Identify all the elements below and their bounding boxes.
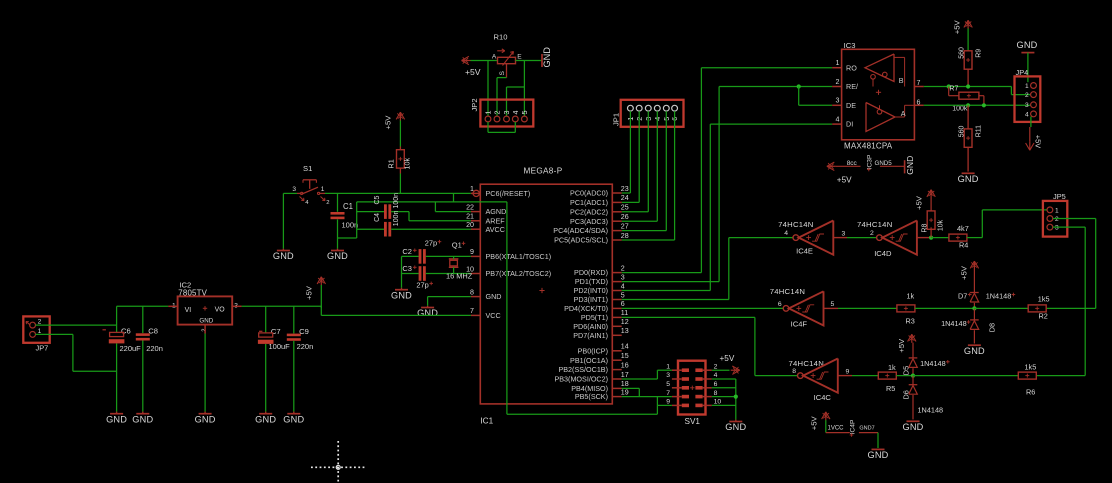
junction (RE/DE tie) — [797, 84, 801, 88]
svg-text:16 MHZ: 16 MHZ — [446, 271, 473, 280]
wire SV1 pin10 — [712, 404, 736, 406]
svg-text:1k: 1k — [888, 363, 896, 372]
wire SV1 pin8 — [712, 396, 736, 398]
gate IC4C 74HC14N — [789, 359, 853, 402]
svg-text:A: A — [901, 109, 906, 118]
svg-text:GND: GND — [905, 156, 915, 175]
wire S1 pin1 to IC1 pin1 (reset line) — [325, 192, 471, 194]
connector JP2 — [470, 98, 533, 126]
svg-text:74HC14N: 74HC14N — [857, 220, 893, 229]
svg-text:560: 560 — [958, 126, 965, 138]
svg-text:PD7(AIN1): PD7(AIN1) — [573, 331, 608, 340]
svg-text:PD1(TXD): PD1(TXD) — [575, 277, 608, 286]
svg-text:6: 6 — [917, 98, 921, 106]
wire IC4E out to IC4D in — [847, 237, 877, 239]
svg-text:100n: 100n — [393, 211, 400, 227]
ground (under IC1 GND pin) — [417, 306, 438, 318]
wire C3 row — [402, 273, 419, 275]
svg-text:5: 5 — [520, 111, 529, 115]
svg-text:JP7: JP7 — [36, 343, 49, 352]
wire IC2 VO to +5V rail — [242, 306, 322, 308]
junction (D7/D8 node) — [972, 306, 976, 310]
resistor R5 1k — [878, 363, 896, 393]
wire caps rail top — [357, 201, 454, 203]
svg-text:SV1: SV1 — [685, 417, 701, 426]
connector JP7 — [23, 316, 49, 352]
capacitor C4 — [357, 211, 400, 237]
svg-text:GND: GND — [327, 251, 348, 261]
svg-text:14: 14 — [621, 343, 629, 351]
svg-text:4: 4 — [714, 372, 718, 379]
wire SV1 pin9 feed — [657, 397, 672, 406]
svg-text:GND: GND — [417, 308, 438, 318]
wire JP5 pin3 to R6 — [1036, 227, 1085, 376]
svg-text:4k7: 4k7 — [957, 224, 969, 233]
wire GND to S1 pin3 — [283, 192, 297, 194]
svg-text:RE/: RE/ — [846, 82, 858, 91]
svg-text:+5V: +5V — [720, 354, 735, 363]
svg-text:IC3P: IC3P — [866, 154, 873, 169]
wire SV1 pin6 — [712, 387, 736, 389]
svg-text:8: 8 — [714, 390, 718, 397]
wire reset branch down — [454, 193, 507, 202]
svg-text:GND: GND — [283, 414, 304, 424]
svg-text:11: 11 — [621, 309, 628, 317]
wire C4 to AVCC — [391, 228, 471, 230]
svg-text:DI: DI — [846, 120, 853, 129]
svg-text:PC4(ADC4/SDA): PC4(ADC4/SDA) — [553, 226, 608, 235]
svg-text:PC6(/RESET): PC6(/RESET) — [486, 189, 531, 198]
svg-text:A: A — [492, 54, 497, 61]
svg-text:3: 3 — [292, 186, 296, 193]
svg-text:74HC14N: 74HC14N — [778, 220, 814, 229]
wire C2 row — [402, 255, 419, 257]
wire IC3 B line — [924, 86, 1012, 88]
svg-text:C6: C6 — [121, 326, 131, 335]
potentiometer R10 — [492, 33, 522, 78]
connector JP1 — [612, 100, 684, 127]
svg-text:22: 22 — [466, 203, 474, 211]
svg-text:1: 1 — [1025, 83, 1029, 90]
power +5V (R9) — [953, 20, 973, 35]
connector JP5 — [1043, 192, 1067, 236]
svg-text:1VCC: 1VCC — [828, 426, 845, 432]
wire PD1 to IC3 RE/DE — [622, 87, 833, 282]
svg-text:5: 5 — [831, 301, 835, 308]
wire +5V to R10 A — [471, 60, 498, 62]
svg-text:+5V: +5V — [953, 20, 962, 35]
wire R3 to diode node — [915, 307, 975, 309]
wire R5 to diode node — [896, 375, 913, 377]
wire reset trace through IC to SV1 (vertical) — [506, 202, 508, 414]
svg-text:GND: GND — [486, 292, 502, 301]
wire JP2 pin5 to pin3 — [507, 87, 525, 116]
svg-text:4: 4 — [836, 116, 840, 124]
svg-text:R11: R11 — [976, 125, 983, 137]
svg-text:IC4F: IC4F — [791, 319, 808, 328]
wire PD2 to IC3 DI — [622, 124, 833, 290]
svg-text:100k: 100k — [952, 105, 968, 112]
svg-text:1: 1 — [1055, 207, 1059, 214]
svg-text:1k5: 1k5 — [1038, 295, 1050, 304]
svg-text:1k5: 1k5 — [1025, 362, 1037, 371]
svg-text:IC1: IC1 — [480, 417, 493, 426]
svg-text:100n: 100n — [342, 221, 359, 230]
wire JP1 pin2 to IC1 pin 24 — [622, 111, 640, 202]
svg-text:3: 3 — [1025, 102, 1029, 109]
resistor R8 10k — [921, 198, 944, 238]
svg-text:PC0(ADC0): PC0(ADC0) — [570, 189, 608, 198]
wire node to R4 — [931, 237, 949, 239]
svg-text:PB6(XTAL1/TOSC1): PB6(XTAL1/TOSC1) — [486, 252, 552, 261]
svg-text:PD2(INT0): PD2(INT0) — [574, 286, 608, 295]
svg-text:5: 5 — [621, 291, 625, 299]
wire JP1 pin1 to IC1 pin 23 — [622, 111, 631, 193]
svg-text:JP2: JP2 — [470, 98, 479, 111]
wire IC4F out to R3 — [838, 307, 897, 309]
svg-text:GND: GND — [195, 414, 216, 424]
svg-text:D6: D6 — [901, 390, 910, 399]
capacitor C1 — [331, 193, 359, 248]
svg-text:PB3(MOSI/OC2): PB3(MOSI/OC2) — [554, 375, 608, 384]
svg-text:2: 2 — [326, 200, 329, 206]
svg-text:1N4148: 1N4148 — [986, 292, 1012, 301]
svg-text:R3: R3 — [906, 317, 915, 326]
resistor R3 1k — [897, 292, 915, 326]
svg-text:+5V: +5V — [1034, 135, 1043, 148]
svg-text:JP5: JP5 — [1053, 192, 1066, 201]
junction (B to R7) — [947, 84, 951, 88]
svg-text:Q1: Q1 — [452, 240, 462, 249]
resistor R1 10k — [386, 147, 411, 174]
wire JP7 pin2 to C6 node — [36, 324, 117, 326]
svg-text:16: 16 — [621, 361, 629, 369]
resistor R6 1k5 — [1018, 362, 1036, 396]
svg-text:6: 6 — [621, 300, 625, 308]
svg-text:26: 26 — [621, 213, 629, 221]
svg-text:1N4148: 1N4148 — [920, 359, 946, 368]
svg-text:18: 18 — [621, 380, 629, 388]
svg-text:+5V: +5V — [837, 176, 852, 185]
svg-text:PD0(RXD): PD0(RXD) — [574, 268, 608, 277]
svg-text:PD5(T1): PD5(T1) — [581, 313, 608, 322]
wire IC2 GND pin to ground — [204, 334, 206, 412]
svg-text:1N4148: 1N4148 — [918, 406, 944, 415]
IC1 right pins — [553, 185, 628, 401]
diode D8 1N4148 — [941, 308, 996, 343]
svg-text:74HC14N: 74HC14N — [770, 287, 806, 296]
svg-text:23: 23 — [621, 185, 629, 193]
svg-text:D8: D8 — [988, 323, 997, 332]
svg-text:2: 2 — [714, 363, 718, 370]
svg-text:2: 2 — [621, 264, 625, 272]
ground (under R11) — [958, 173, 979, 184]
svg-text:RO: RO — [846, 63, 857, 72]
svg-text:GND: GND — [964, 346, 985, 356]
wire IC3 A line — [924, 104, 1031, 106]
wire +5V to R1 — [399, 121, 401, 147]
svg-text:+5V: +5V — [305, 285, 314, 300]
ground (under SV1) — [725, 420, 746, 433]
wire R10 wiper to JP2 pin2 — [497, 78, 507, 117]
svg-text:7: 7 — [917, 79, 921, 87]
wire C2 to IC1 PB6 — [426, 255, 471, 257]
power +5V (R1 pull-up) — [384, 112, 405, 129]
wire C8 tap — [142, 306, 144, 333]
wire S1 to GND — [282, 193, 284, 248]
svg-text:DE: DE — [846, 101, 856, 110]
svg-text:VCC: VCC — [486, 311, 501, 320]
svg-text:S: S — [499, 71, 506, 76]
svg-text:2: 2 — [493, 111, 502, 115]
ground (under C9) — [283, 412, 304, 425]
wire +5V to R9 — [967, 29, 969, 51]
svg-text:R9: R9 — [976, 49, 983, 58]
svg-text:IC3: IC3 — [844, 41, 856, 50]
svg-text:D7: D7 — [958, 292, 967, 301]
wire RE to DE — [799, 87, 833, 106]
svg-text:MEGA8-P: MEGA8-P — [524, 167, 563, 176]
svg-text:100n: 100n — [393, 193, 400, 209]
svg-text:27p: 27p — [425, 238, 437, 247]
svg-text:+5V: +5V — [914, 195, 923, 210]
gate IC4F 74HC14N — [770, 287, 838, 328]
crystal Q1 — [446, 240, 473, 280]
wire JP7 pin1 loop — [36, 334, 117, 371]
IC IC2 7805TV — [168, 280, 241, 333]
wire JP1 pin3 to IC1 pin 25 — [622, 111, 649, 212]
wire IC4C out to R5 — [852, 375, 878, 377]
svg-text:R6: R6 — [1026, 387, 1035, 396]
power IC3P — [827, 154, 915, 184]
svg-text:10: 10 — [714, 399, 722, 406]
wire SV1 ground bus — [735, 379, 737, 420]
capacitor C7 — [258, 327, 290, 412]
svg-text:220n: 220n — [297, 342, 314, 351]
svg-text:6: 6 — [778, 301, 782, 308]
svg-text:15: 15 — [621, 352, 629, 360]
svg-text:100uF: 100uF — [269, 342, 291, 351]
svg-text:28: 28 — [621, 232, 629, 240]
svg-text:1: 1 — [666, 363, 670, 370]
capacitor C2 — [402, 238, 441, 263]
svg-text:JP1: JP1 — [612, 113, 621, 126]
svg-text:JP4: JP4 — [1016, 68, 1029, 77]
svg-text:GND: GND — [542, 47, 552, 68]
svg-text:27p: 27p — [416, 280, 428, 289]
wire PD5 to IC4C input — [622, 317, 798, 375]
wire reset trace bottom — [507, 405, 658, 414]
wire C9 tap — [293, 306, 295, 333]
wire R1 to reset line — [399, 174, 401, 194]
svg-text:1: 1 — [836, 59, 840, 67]
svg-text:3: 3 — [621, 273, 625, 281]
svg-text:+5V: +5V — [897, 338, 906, 353]
svg-text:GND: GND — [199, 317, 213, 324]
svg-text:13: 13 — [621, 327, 629, 335]
svg-text:GND: GND — [132, 414, 153, 424]
resistor R7 100k — [949, 86, 984, 113]
power +5V (SV1 pin2) — [712, 354, 740, 374]
svg-text:220n: 220n — [146, 344, 163, 353]
svg-text:4: 4 — [784, 230, 788, 237]
svg-text:C3: C3 — [402, 264, 412, 273]
svg-text:6: 6 — [714, 381, 718, 388]
svg-text:PB0(ICP): PB0(ICP) — [578, 346, 608, 355]
wire to SV1 pin7 — [622, 396, 672, 398]
svg-text:3: 3 — [502, 111, 511, 115]
svg-text:10k: 10k — [402, 158, 411, 170]
wire IC1 PB3 to SV1 pin1 — [622, 370, 672, 379]
wire C2/C3 to GND — [401, 256, 403, 287]
svg-text:4: 4 — [621, 282, 625, 290]
svg-text:PD6(AIN0): PD6(AIN0) — [573, 322, 608, 331]
svg-text:PB1(OC1A): PB1(OC1A) — [570, 356, 608, 365]
svg-text:R10: R10 — [494, 33, 508, 42]
wire IC1 PB4 jog — [622, 388, 640, 396]
svg-text:B: B — [899, 76, 904, 85]
svg-text:VI: VI — [185, 307, 192, 314]
svg-text:S1: S1 — [303, 164, 312, 173]
IC1 pin1 circle — [473, 190, 479, 196]
ground (right of R10) — [542, 47, 552, 68]
resistor R2 1k5 — [1028, 295, 1049, 321]
svg-text:E: E — [517, 54, 522, 61]
svg-text:74HC14N: 74HC14N — [789, 359, 825, 368]
gate IC4E 74HC14N — [778, 220, 847, 256]
svg-text:9: 9 — [846, 368, 850, 375]
power +5V (JP4, down) — [1026, 127, 1043, 150]
svg-text:7: 7 — [666, 390, 670, 397]
wire node to R6 — [913, 375, 1018, 377]
wire R10 E branch to JP2 pin5 — [523, 61, 525, 117]
svg-text:PC5(ADC5/SCL): PC5(ADC5/SCL) — [554, 236, 608, 245]
svg-text:220uF: 220uF — [120, 344, 142, 353]
wire node to R2 — [974, 307, 1028, 309]
ground (above JP4) — [1016, 40, 1037, 53]
resistor R9 560 — [958, 47, 982, 86]
svg-text:2: 2 — [870, 230, 874, 237]
svg-text:R1: R1 — [386, 159, 395, 168]
svg-text:PC2(ADC2): PC2(ADC2) — [570, 207, 608, 216]
svg-text:GND: GND — [106, 414, 127, 424]
capacitor C9 — [287, 327, 313, 412]
svg-text:20: 20 — [466, 221, 474, 229]
power +5V (R10 supply) — [462, 56, 481, 77]
svg-text:R8: R8 — [921, 224, 928, 233]
diode D7 1N4148 — [958, 270, 1015, 309]
svg-text:1N4148: 1N4148 — [941, 319, 967, 328]
junction (SV1 pin8 bus) — [734, 395, 738, 399]
svg-text:560: 560 — [958, 47, 965, 59]
wire JP5 pin2 to R2 — [1046, 219, 1096, 309]
svg-text:10k: 10k — [937, 219, 944, 231]
ground (under C2/C3) — [391, 288, 412, 301]
diode D5 1N4148 — [901, 343, 949, 376]
wire JP2 pin1 to pin4 (loop below) — [488, 122, 515, 132]
svg-text:IC4P: IC4P — [850, 419, 857, 434]
svg-text:GND: GND — [725, 422, 746, 432]
power +5V (IC2 output rail) — [305, 277, 326, 300]
ground (under C8) — [132, 412, 153, 425]
ground (under D6) — [902, 421, 923, 432]
svg-text:8cc: 8cc — [847, 160, 858, 167]
wire IC1 GND pin to ground — [428, 297, 471, 306]
wire GND to JP4 pin1 — [1027, 53, 1029, 83]
power +5V (D5) — [897, 334, 916, 353]
capacitor C8 — [136, 326, 163, 411]
svg-text:25: 25 — [621, 204, 629, 212]
svg-text:AVCC: AVCC — [486, 225, 505, 234]
svg-text:PC1(ADC1): PC1(ADC1) — [570, 198, 608, 207]
svg-text:R2: R2 — [1039, 312, 1048, 321]
svg-text:3: 3 — [842, 230, 846, 237]
wire JP1 pin4 to IC1 pin 26 — [622, 111, 658, 221]
svg-text:IC4D: IC4D — [874, 249, 892, 258]
wire IC4P GND — [877, 433, 879, 448]
svg-text:GND: GND — [958, 174, 979, 184]
svg-text:7: 7 — [470, 307, 474, 315]
svg-text:+5V: +5V — [809, 416, 818, 431]
svg-text:AGND: AGND — [486, 207, 507, 216]
svg-text:IC4E: IC4E — [796, 247, 813, 256]
svg-text:1k: 1k — [907, 292, 915, 301]
wire R10 E to GND — [516, 60, 543, 62]
gate IC4D 74HC14N — [857, 220, 931, 258]
svg-text:3: 3 — [1055, 225, 1059, 232]
svg-text:19: 19 — [621, 388, 629, 396]
svg-text:R7: R7 — [949, 86, 958, 93]
svg-text:GND: GND — [867, 450, 888, 460]
IC IC3 MAX481CPA — [832, 41, 924, 151]
wire R4 to JP5 pin1 — [967, 210, 1047, 238]
sheet origin crosshair — [311, 441, 366, 483]
svg-text:PB7(XTAL2/TOSC2): PB7(XTAL2/TOSC2) — [486, 269, 552, 278]
ground (under C1) — [327, 249, 348, 261]
svg-text:24: 24 — [621, 194, 629, 202]
svg-text:17: 17 — [621, 371, 629, 379]
junction (A to R11) — [966, 103, 970, 107]
power +5V (R8) — [914, 190, 935, 210]
svg-text:R5: R5 — [886, 384, 895, 393]
svg-text:27: 27 — [621, 222, 629, 230]
IC U-IC1 MEGA8-P box — [480, 167, 612, 426]
wire C3 to IC1 PB7 — [426, 273, 471, 275]
svg-text:GND7: GND7 — [859, 426, 874, 432]
wire JP1 pin6 to IC1 pin 28 — [622, 111, 675, 240]
capacitor C3 — [402, 264, 433, 289]
svg-text:3: 3 — [666, 372, 670, 379]
wire +5V rail to VCC — [321, 285, 471, 315]
ground (under S1) — [273, 249, 294, 261]
junction (IC4D out node) — [929, 236, 933, 240]
wire JP1 pin5 to IC1 pin 27 — [622, 111, 667, 231]
diode D6 1N4148 — [901, 376, 943, 420]
svg-text:8: 8 — [470, 288, 474, 296]
svg-text:4: 4 — [511, 111, 520, 115]
wire PD0 to IC3 RO — [622, 68, 833, 273]
wire PD4 to IC4F input — [622, 307, 784, 309]
capacitor C6 — [103, 325, 142, 412]
ground (under C7) — [255, 412, 276, 425]
capacitor C5 — [357, 193, 409, 219]
ground (under C6) — [106, 412, 127, 425]
svg-text:21: 21 — [466, 213, 474, 221]
svg-text:9: 9 — [470, 248, 474, 256]
wire C1 GND rail to caps rail — [338, 202, 357, 238]
wire PD3 to IC4E input — [622, 238, 793, 300]
wire C6 node up to rail — [117, 306, 169, 325]
